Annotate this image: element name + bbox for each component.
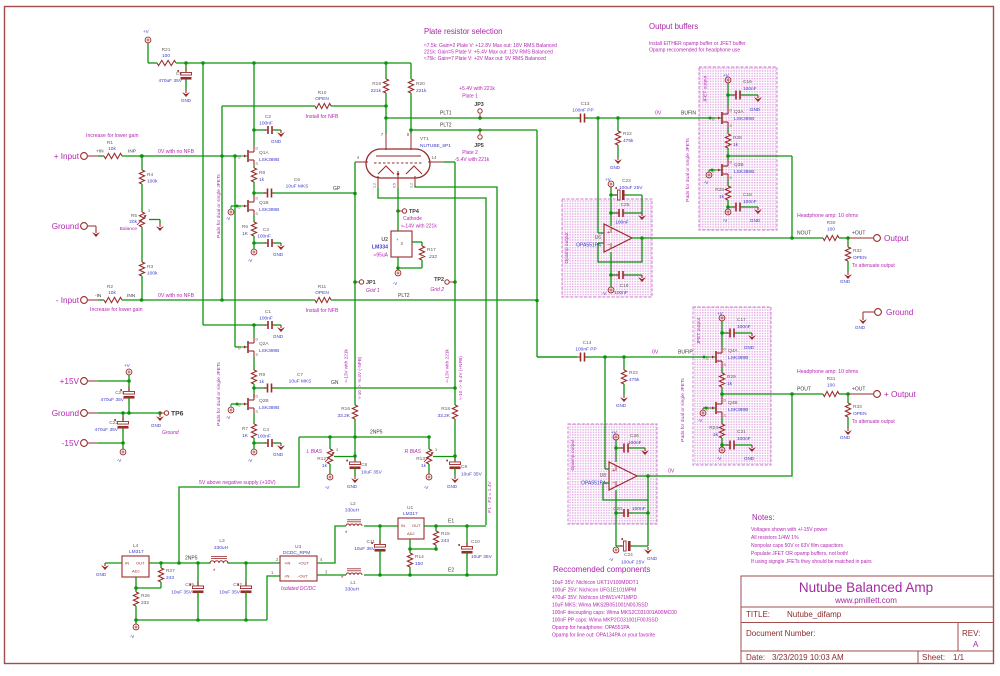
svg-text:JP5: JP5 xyxy=(474,143,484,149)
svg-text:E2: E2 xyxy=(448,568,454,574)
svg-text:Pads for dual or single JFETs: Pads for dual or single JFETs xyxy=(685,138,691,202)
svg-text:Install for NFB: Install for NFB xyxy=(306,114,339,120)
svg-text:www.pmillett.com: www.pmillett.com xyxy=(834,596,897,605)
svg-text:Document Number:: Document Number: xyxy=(746,629,815,638)
svg-text:2NP5: 2NP5 xyxy=(185,556,198,562)
svg-text:Ground: Ground xyxy=(162,430,179,436)
svg-text:OPEN: OPEN xyxy=(315,290,329,296)
svg-text:R5: R5 xyxy=(131,213,137,219)
svg-text:6,5: 6,5 xyxy=(393,183,397,188)
svg-text:Nonpolar caps 50V or 63V film: Nonpolar caps 50V or 63V film capacitors xyxy=(751,543,843,549)
svg-text:C27: C27 xyxy=(115,390,124,396)
svg-text:LSK389B: LSK389B xyxy=(259,405,279,411)
svg-text:R4: R4 xyxy=(147,172,153,178)
svg-text:LSK389B: LSK389B xyxy=(734,169,754,175)
svg-text:C10: C10 xyxy=(471,539,480,545)
svg-text:D: D xyxy=(730,109,733,113)
svg-text:470uF 35V: Nichicon UHW1V471MP: 470uF 35V: Nichicon UHW1V471MPD xyxy=(552,595,638,601)
svg-text:33.2K: 33.2K xyxy=(337,413,350,419)
svg-text:1k: 1k xyxy=(713,432,719,438)
svg-text:100nF: 100nF xyxy=(259,121,273,127)
svg-text:Date:: Date: xyxy=(746,653,765,662)
svg-text:Q1A: Q1A xyxy=(259,150,269,156)
svg-text:1k: 1k xyxy=(727,381,733,387)
svg-text:BUFIN: BUFIN xyxy=(681,111,696,117)
svg-text:+ Output: + Output xyxy=(884,390,916,399)
svg-text:R2: R2 xyxy=(107,284,113,290)
svg-text:Pads for dual or single JFETs: Pads for dual or single JFETs xyxy=(216,362,222,426)
svg-text:E1: E1 xyxy=(448,519,454,525)
svg-text:+V: +V xyxy=(124,363,131,368)
svg-text:To attenuate output: To attenuate output xyxy=(852,419,895,425)
svg-text:100nF decoupling caps: Wima MK: 100nF decoupling caps: Wima MKS2C031001A… xyxy=(552,610,677,616)
svg-text:3,2: 3,2 xyxy=(410,183,414,188)
svg-text:C3: C3 xyxy=(263,227,269,233)
svg-text:100nF: 100nF xyxy=(257,234,271,240)
svg-text:OPEN: OPEN xyxy=(853,255,867,261)
svg-text:GND: GND xyxy=(273,334,284,339)
svg-text:OUT: OUT xyxy=(136,561,145,566)
svg-text:475k: 475k xyxy=(623,138,634,144)
svg-text:GND: GND xyxy=(750,107,761,112)
svg-text:GN: GN xyxy=(331,380,339,386)
svg-text:R7: R7 xyxy=(242,426,248,432)
svg-text:Voltages shown with +/-15V pow: Voltages shown with +/-15V power xyxy=(751,527,828,533)
svg-text:LSK389B: LSK389B xyxy=(734,116,754,122)
svg-text:10k: 10k xyxy=(108,146,116,152)
svg-text:C18: C18 xyxy=(743,192,752,198)
svg-text:LSK389B: LSK389B xyxy=(728,355,748,361)
svg-text:1k: 1k xyxy=(733,142,739,148)
svg-text:R21: R21 xyxy=(162,47,171,53)
svg-text:R25: R25 xyxy=(715,187,724,193)
svg-text:100nF: 100nF xyxy=(614,290,628,296)
svg-text:R13: R13 xyxy=(416,456,425,462)
svg-text:Ground: Ground xyxy=(52,222,80,231)
svg-text:+V: +V xyxy=(143,29,150,34)
svg-text:R32: R32 xyxy=(853,248,862,254)
svg-text:R11: R11 xyxy=(318,284,327,290)
svg-text:GND: GND xyxy=(273,452,284,457)
svg-text:TITLE:: TITLE: xyxy=(746,610,770,619)
svg-text:100k: 100k xyxy=(147,271,158,277)
svg-text:TP4: TP4 xyxy=(409,209,419,215)
svg-text:+: + xyxy=(607,230,610,236)
svg-text:- Input: - Input xyxy=(56,296,80,305)
svg-text:100k: 100k xyxy=(147,179,158,185)
svg-text:LSK389B: LSK389B xyxy=(259,207,279,213)
svg-text:100nF: 100nF xyxy=(259,316,273,322)
svg-text:G: G xyxy=(706,357,709,361)
svg-text:0V: 0V xyxy=(668,469,675,475)
svg-text:−: − xyxy=(612,480,615,486)
svg-text:243: 243 xyxy=(166,575,174,581)
svg-text:D: D xyxy=(724,348,727,352)
svg-text:5V above negative supply (+10V: 5V above negative supply (+10V) xyxy=(199,480,276,486)
svg-text:IN: IN xyxy=(125,561,129,566)
svg-text:GND: GND xyxy=(744,456,755,461)
svg-text:R28: R28 xyxy=(733,135,742,141)
svg-text:Sheet:: Sheet: xyxy=(922,653,945,662)
svg-text:C26: C26 xyxy=(630,433,639,439)
svg-text:GND: GND xyxy=(616,403,627,408)
svg-text:U1: U1 xyxy=(407,505,413,511)
svg-text:1/1: 1/1 xyxy=(953,653,965,662)
svg-text:R3: R3 xyxy=(147,264,153,270)
svg-text:NUTUBE_6P1: NUTUBE_6P1 xyxy=(420,143,451,149)
svg-text:≈75k: Gain=7 Plate V: +2V Ma: ≈75k: Gain=7 Plate V: +2V Max out: 9V RM… xyxy=(424,56,546,62)
svg-text:Install for NFB: Install for NFB xyxy=(306,308,339,314)
svg-text:C24: C24 xyxy=(624,552,633,558)
svg-text:100nF PP: 100nF PP xyxy=(572,108,593,114)
svg-text:330uH: 330uH xyxy=(345,508,360,514)
svg-text:+V: +V xyxy=(717,311,724,316)
svg-text:−: − xyxy=(607,242,610,248)
svg-text:GND: GND xyxy=(744,345,755,350)
svg-text:ADJ: ADJ xyxy=(132,569,140,574)
svg-text:Cathode: Cathode xyxy=(403,216,422,222)
svg-text:PLT1: PLT1 xyxy=(440,111,452,117)
svg-text:20k: 20k xyxy=(129,219,137,225)
svg-text:330uH: 330uH xyxy=(345,587,360,593)
svg-text:C19: C19 xyxy=(620,283,629,289)
svg-text:≈-13V with 221k: ≈-13V with 221k xyxy=(344,349,349,383)
svg-text:221k: 221k xyxy=(416,88,427,94)
svg-text:GND: GND xyxy=(840,435,851,440)
svg-text:100nF: 100nF xyxy=(257,434,271,440)
svg-text:C7: C7 xyxy=(297,372,303,378)
svg-text:R20: R20 xyxy=(416,81,425,87)
svg-text:GND: GND xyxy=(347,484,358,489)
svg-text:C20: C20 xyxy=(613,506,622,512)
svg-text:G: G xyxy=(238,156,241,160)
svg-text:470uF 35V: 470uF 35V xyxy=(101,397,125,403)
svg-text:C17: C17 xyxy=(737,317,746,323)
svg-text:D: D xyxy=(256,197,259,201)
svg-text:+: + xyxy=(612,468,615,474)
svg-text:C16: C16 xyxy=(743,79,752,85)
svg-text:L4: L4 xyxy=(133,543,139,549)
svg-text:GP: GP xyxy=(333,186,341,192)
svg-text:C2: C2 xyxy=(265,114,271,120)
svg-text:1k: 1k xyxy=(259,177,265,183)
svg-text:L2: L2 xyxy=(350,501,356,507)
svg-text:3: 3 xyxy=(148,209,150,213)
svg-text:243: 243 xyxy=(441,538,449,544)
svg-text:Q4B: Q4B xyxy=(728,400,738,406)
svg-text:1,2: 1,2 xyxy=(373,183,377,188)
svg-text:100nF: 100nF xyxy=(615,220,629,226)
svg-text:GND: GND xyxy=(647,556,658,561)
svg-text:100: 100 xyxy=(827,383,835,389)
svg-text:OPEN: OPEN xyxy=(315,96,329,102)
svg-text:≈-13V with 221k: ≈-13V with 221k xyxy=(445,349,450,383)
svg-text:221k: Gain=5 Plate V: +5.4V: 221k: Gain=5 Plate V: +5.4V Max out: 12V… xyxy=(424,50,553,56)
svg-text:Grid 2: Grid 2 xyxy=(430,287,444,293)
svg-text:Q3B: Q3B xyxy=(734,162,744,168)
svg-text:Nutube Balanced Amp: Nutube Balanced Amp xyxy=(799,580,933,595)
svg-text:≈7.5k: Gain=2 Plate V: +12.8V: ≈7.5k: Gain=2 Plate V: +12.8V Max out: 1… xyxy=(424,43,557,49)
svg-text:Pads for dual or single JFETs: Pads for dual or single JFETs xyxy=(216,174,222,238)
svg-text:JFET output: JFET output xyxy=(703,75,709,102)
svg-text:Pads for dual or single JFETs: Pads for dual or single JFETs xyxy=(680,378,686,442)
svg-text:BUFIP: BUFIP xyxy=(678,350,693,356)
svg-text:TP2: TP2 xyxy=(434,277,444,283)
svg-text:C13: C13 xyxy=(581,101,590,107)
svg-text:232: 232 xyxy=(428,254,437,260)
svg-text:G: G xyxy=(712,118,715,122)
svg-text:D: D xyxy=(256,395,259,399)
svg-text:C6: C6 xyxy=(294,177,300,183)
svg-text:GND: GND xyxy=(610,165,621,170)
svg-text:Nutube_difamp: Nutube_difamp xyxy=(787,610,842,619)
svg-text:D: D xyxy=(724,399,727,403)
svg-text:0V with no NFB: 0V with no NFB xyxy=(158,149,195,155)
svg-text:470uF 35V: 470uF 35V xyxy=(95,427,119,433)
svg-text:330uH: 330uH xyxy=(214,545,229,551)
svg-text:0V with no NFB: 0V with no NFB xyxy=(158,293,195,299)
svg-text:GND: GND xyxy=(271,139,282,144)
svg-text:G: G xyxy=(238,347,241,351)
svg-text:Opamp for headphone: OPA551PA: Opamp for headphone: OPA551PA xyxy=(552,625,630,631)
svg-text:D: D xyxy=(256,147,259,151)
svg-text:GND: GND xyxy=(151,423,162,428)
svg-text:Ground: Ground xyxy=(886,308,914,317)
svg-text:C5: C5 xyxy=(176,71,182,77)
svg-text:A: A xyxy=(973,640,979,649)
svg-text:R9: R9 xyxy=(259,372,265,378)
svg-text:Plate resistor selection: Plate resistor selection xyxy=(424,27,502,36)
svg-text:+15V: +15V xyxy=(60,377,80,386)
svg-text:GND: GND xyxy=(181,98,192,103)
svg-text:R29: R29 xyxy=(727,374,736,380)
svg-text:232: 232 xyxy=(141,600,149,606)
svg-text:10uF 35V: 10uF 35V xyxy=(354,546,376,552)
svg-text:R27: R27 xyxy=(166,568,175,574)
svg-text:R BIAS: R BIAS xyxy=(405,449,422,455)
svg-text:C8: C8 xyxy=(361,462,367,468)
svg-text:All resistors 1/4W 1%: All resistors 1/4W 1% xyxy=(751,535,799,541)
svg-text:Q3A: Q3A xyxy=(734,109,744,115)
svg-text:D: D xyxy=(256,338,259,342)
svg-text:PLT2: PLT2 xyxy=(440,123,452,129)
svg-text:-15V: -15V xyxy=(62,439,80,448)
svg-text:U2: U2 xyxy=(381,237,388,243)
svg-text:100uF 25V: Nichicon UFG1E101MP: 100uF 25V: Nichicon UFG1E101MPM xyxy=(552,588,636,594)
svg-text:10uF 35V: 10uF 35V xyxy=(461,472,483,478)
svg-text:Increase for lower gain: Increase for lower gain xyxy=(90,307,143,313)
svg-text:1K: 1K xyxy=(242,433,249,439)
svg-text:R10: R10 xyxy=(318,90,327,96)
svg-text:NOUT: NOUT xyxy=(797,231,811,237)
svg-text:U8: U8 xyxy=(600,473,607,479)
svg-text:≈-10 -> -5.4V (+NFB): ≈-10 -> -5.4V (+NFB) xyxy=(458,356,463,400)
svg-text:14: 14 xyxy=(432,155,437,160)
svg-text:LM334: LM334 xyxy=(372,245,388,251)
svg-text:OPEN: OPEN xyxy=(853,411,867,417)
svg-text:+OUT: +OUT xyxy=(852,387,865,393)
svg-text:1K: 1K xyxy=(242,231,249,237)
svg-text:100uF 25V: 100uF 25V xyxy=(619,185,643,191)
svg-text:2NP5: 2NP5 xyxy=(370,430,383,436)
svg-text:10uF MKS: 10uF MKS xyxy=(289,379,312,385)
svg-text:JFET output: JFET output xyxy=(696,317,702,344)
svg-text:INN: INN xyxy=(127,293,136,299)
svg-text:100nF PP caps: Wima MKP2C03100: 100nF PP caps: Wima MKP2C031001F00JSSD xyxy=(552,618,659,624)
svg-text:+IN: +IN xyxy=(284,561,290,566)
svg-text:100nF: 100nF xyxy=(743,86,757,92)
svg-text:GND: GND xyxy=(96,572,107,577)
svg-text:U3: U3 xyxy=(295,544,301,550)
svg-text:L3: L3 xyxy=(219,538,225,544)
svg-text:INP: INP xyxy=(128,149,136,155)
svg-text:≈-14V with 221k: ≈-14V with 221k xyxy=(401,224,437,230)
svg-text:R19: R19 xyxy=(372,81,381,87)
svg-text:470uF 35V: 470uF 35V xyxy=(159,78,183,84)
svg-text:If using signgle JFETs they sh: If using signgle JFETs they should be ma… xyxy=(751,559,872,565)
svg-text:C12: C12 xyxy=(233,582,242,588)
svg-text:LM317: LM317 xyxy=(403,511,418,517)
svg-text:R24: R24 xyxy=(709,425,718,431)
svg-text:10uF MKS: 10uF MKS xyxy=(286,184,309,190)
svg-text:R22: R22 xyxy=(623,131,632,137)
svg-text:L BIAS: L BIAS xyxy=(307,449,323,455)
svg-text:R6: R6 xyxy=(242,224,248,230)
svg-text:100nF PP: 100nF PP xyxy=(575,347,596,353)
svg-text:Reccomended components: Reccomended components xyxy=(553,565,650,574)
svg-text:R33: R33 xyxy=(853,404,862,410)
svg-text:Notes:: Notes: xyxy=(752,513,775,522)
svg-text:R8: R8 xyxy=(259,170,265,176)
svg-text:+5.4V with 221k: +5.4V with 221k xyxy=(459,86,495,92)
svg-text:VT1: VT1 xyxy=(420,136,429,142)
svg-text:Headphone amp: 10 ohms: Headphone amp: 10 ohms xyxy=(797,369,859,375)
svg-text:C11: C11 xyxy=(367,539,376,545)
svg-text:R26: R26 xyxy=(141,593,150,599)
svg-text:10uF 35V: 10uF 35V xyxy=(471,554,493,560)
svg-text:Opamp output: Opamp output xyxy=(570,439,576,471)
svg-text:S: S xyxy=(401,241,404,246)
svg-text:R30: R30 xyxy=(827,220,836,226)
svg-text:Grid 1: Grid 1 xyxy=(366,288,380,294)
svg-text:33.2K: 33.2K xyxy=(437,413,450,419)
svg-text:10uF 35V: 10uF 35V xyxy=(219,590,241,596)
svg-text:≈95uA: ≈95uA xyxy=(374,253,389,259)
svg-text:100nF: 100nF xyxy=(737,436,751,442)
svg-text:C15: C15 xyxy=(185,582,194,588)
svg-text:Output buffers: Output buffers xyxy=(649,22,698,31)
svg-text:Isolated DC/DC: Isolated DC/DC xyxy=(281,586,316,592)
svg-text:PLT2: PLT2 xyxy=(398,293,410,299)
svg-text:L1: L1 xyxy=(350,580,356,586)
svg-text:10uF 35V: 10uF 35V xyxy=(171,590,193,596)
svg-text:Plate 1: Plate 1 xyxy=(462,94,478,100)
svg-text:GND: GND xyxy=(273,252,284,257)
svg-text:100: 100 xyxy=(827,227,835,233)
svg-text:0V: 0V xyxy=(652,350,659,356)
svg-text:C14: C14 xyxy=(583,340,592,346)
svg-text:10uF 35V: 10uF 35V xyxy=(361,470,383,476)
svg-text:1k: 1k xyxy=(259,379,265,385)
svg-text:1k: 1k xyxy=(322,463,328,469)
svg-text:+V: +V xyxy=(605,177,612,182)
svg-text:Increase for lower gain: Increase for lower gain xyxy=(86,133,139,139)
svg-text:10k: 10k xyxy=(108,290,116,296)
svg-text:C22: C22 xyxy=(109,420,118,426)
svg-text:+OUT: +OUT xyxy=(298,561,309,566)
svg-text:10uF MKS: Wima MKS2B051001N00J: 10uF MKS: Wima MKS2B051001N00JSSD xyxy=(552,603,649,609)
svg-text:OUT: OUT xyxy=(412,523,421,528)
svg-text:R15: R15 xyxy=(441,531,450,537)
svg-text:Balance: Balance xyxy=(120,226,138,232)
svg-text:C21: C21 xyxy=(737,429,746,435)
svg-text:R23: R23 xyxy=(629,370,638,376)
svg-text:150: 150 xyxy=(415,561,423,567)
svg-text:Populate JFET OR opamp buffers: Populate JFET OR opamp buffers, not both… xyxy=(751,551,848,557)
svg-text:Opamp for line out: OPA134PA o: Opamp for line out: OPA134PA or your fav… xyxy=(552,633,655,639)
svg-text:Q4A: Q4A xyxy=(728,348,738,354)
svg-text:LSK389B: LSK389B xyxy=(259,348,279,354)
svg-text:3/23/2019 10:03 AM: 3/23/2019 10:03 AM xyxy=(772,653,844,662)
svg-text:LSK389B: LSK389B xyxy=(728,407,748,413)
svg-text:R1: R1 xyxy=(107,140,113,146)
svg-text:Opamp reccomended for headphon: Opamp reccomended for headphone use xyxy=(649,48,740,54)
svg-text:Q1B: Q1B xyxy=(259,200,269,206)
svg-text:Plate 2: Plate 2 xyxy=(462,150,478,156)
svg-text:To attenuate output: To attenuate output xyxy=(852,263,895,269)
svg-text:R18: R18 xyxy=(441,406,450,412)
svg-text:R14: R14 xyxy=(415,554,424,560)
svg-text:C25: C25 xyxy=(621,202,630,208)
svg-text:Q2B: Q2B xyxy=(259,398,269,404)
svg-text:100nF: 100nF xyxy=(743,199,757,205)
svg-text:-IN: -IN xyxy=(284,574,289,579)
svg-text:LM317: LM317 xyxy=(129,549,144,555)
svg-text:DCDC_RPM: DCDC_RPM xyxy=(283,550,310,556)
svg-text:JP1: JP1 xyxy=(366,280,376,286)
svg-text:Headphone amp: 10 ohms: Headphone amp: 10 ohms xyxy=(797,213,859,219)
svg-text:GND: GND xyxy=(447,484,458,489)
svg-text:GND: GND xyxy=(750,218,761,223)
svg-text:R31: R31 xyxy=(827,376,836,382)
svg-text:+OUT: +OUT xyxy=(852,231,865,237)
svg-text:1k: 1k xyxy=(421,463,427,469)
svg-text:100: 100 xyxy=(162,53,170,59)
svg-text:C9: C9 xyxy=(461,464,467,470)
svg-text:GND: GND xyxy=(840,279,851,284)
svg-text:ADJ: ADJ xyxy=(407,531,415,536)
svg-text:100nF: 100nF xyxy=(632,506,646,512)
svg-text:221k: 221k xyxy=(371,88,382,94)
svg-text:100nF: 100nF xyxy=(737,324,751,330)
svg-text:1k: 1k xyxy=(719,194,725,200)
svg-text:JP3: JP3 xyxy=(474,102,484,108)
svg-text:C23: C23 xyxy=(622,178,631,184)
svg-text:GND: GND xyxy=(855,325,866,330)
svg-text:≈-10 -> -5.4V (-NFB): ≈-10 -> -5.4V (-NFB) xyxy=(357,356,362,399)
svg-text:REV:: REV: xyxy=(962,629,980,638)
svg-text:3: 3 xyxy=(435,448,437,452)
svg-text:R12: R12 xyxy=(317,456,326,462)
svg-text:R16: R16 xyxy=(341,406,350,412)
svg-text:100nF: 100nF xyxy=(628,440,642,446)
svg-text:0V: 0V xyxy=(655,111,662,117)
svg-text:+IN: +IN xyxy=(96,149,104,155)
svg-text:C4: C4 xyxy=(263,427,269,433)
svg-text:TP6: TP6 xyxy=(171,411,184,418)
svg-text:F1 - F2 = 1.4V: F1 - F2 = 1.4V xyxy=(487,481,493,513)
svg-text:-OUT: -OUT xyxy=(298,574,308,579)
